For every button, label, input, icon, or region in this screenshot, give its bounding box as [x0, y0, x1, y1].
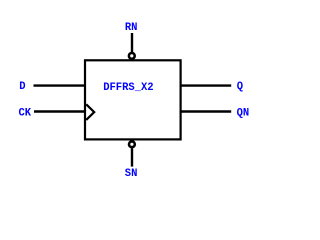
svg-text:DFFRS_X2: DFFRS_X2 [103, 82, 154, 94]
svg-text:D: D [19, 81, 26, 93]
wire RN (net RN to bubble) [131, 33, 133, 52]
svg-text:QN: QN [237, 107, 250, 119]
wire QN (box to net QN) [181, 110, 232, 112]
clock input triangle on CK pin [86, 104, 94, 120]
wire SN (bubble to net SN) [131, 148, 133, 166]
svg-text:SN: SN [125, 168, 138, 180]
svg-text:RN: RN [125, 22, 138, 34]
flip-flop U1 body (DFFRS_X2) [85, 60, 181, 139]
wire Q (box to net Q) [181, 84, 232, 86]
svg-text:CK: CK [19, 107, 32, 119]
wire D (net D to box) [34, 84, 86, 86]
inversion bubble on SN pin [129, 141, 135, 147]
svg-text:Q: Q [237, 81, 244, 93]
inversion bubble on RN pin [129, 53, 135, 59]
wire CK (net CK to box) [34, 110, 85, 112]
